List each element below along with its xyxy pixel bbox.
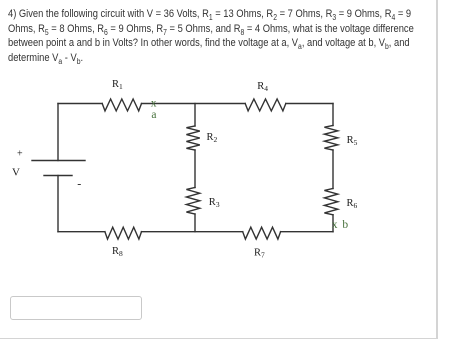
svg-text:a: a: [151, 109, 156, 121]
svg-text:x: x: [151, 97, 157, 109]
wire top-right segment: [286, 103, 333, 105]
resistor R5: [324, 126, 337, 151]
svg-text:R4: R4: [257, 81, 268, 93]
wire top-middle segment: [142, 103, 246, 105]
wire right branch middle: [332, 150, 334, 189]
wire middle branch upper: [194, 104, 196, 127]
svg-text:+: +: [17, 149, 23, 160]
svg-text:R8: R8: [112, 246, 123, 258]
wire bottom-right segment: [281, 231, 333, 233]
wire top-left segment: [58, 103, 102, 105]
svg-text:R2: R2: [207, 132, 218, 144]
wire middle branch middle: [194, 150, 196, 188]
resistor R2: [186, 126, 199, 150]
wire right branch upper: [332, 104, 334, 126]
resistor R8: [105, 227, 142, 239]
wire left branch upper: [57, 104, 59, 161]
resistor R4: [245, 99, 286, 111]
svg-text:-: -: [77, 176, 81, 190]
wire left branch lower: [57, 176, 59, 232]
battery V short plate: [44, 175, 72, 177]
resistor R3: [186, 188, 199, 215]
battery V long plate: [32, 160, 85, 162]
wire bottom-left segment: [58, 231, 105, 233]
svg-text:V: V: [12, 167, 20, 179]
svg-text:b: b: [342, 219, 348, 231]
svg-text:R6: R6: [347, 198, 358, 210]
panel right border: [436, 0, 438, 339]
svg-text:R5: R5: [347, 135, 358, 147]
wire middle branch lower: [194, 214, 196, 232]
resistor R7: [243, 227, 281, 239]
svg-text:R7: R7: [254, 248, 265, 260]
wire bottom-middle segment: [142, 231, 243, 233]
resistor R1: [102, 99, 141, 111]
resistor R6: [324, 189, 337, 215]
panel bottom border: [0, 338, 438, 340]
wire right branch lower: [332, 215, 334, 232]
svg-text:R3: R3: [209, 197, 220, 209]
answer input box: [10, 296, 142, 320]
svg-text:R1: R1: [112, 79, 123, 91]
svg-text:x: x: [332, 219, 338, 231]
